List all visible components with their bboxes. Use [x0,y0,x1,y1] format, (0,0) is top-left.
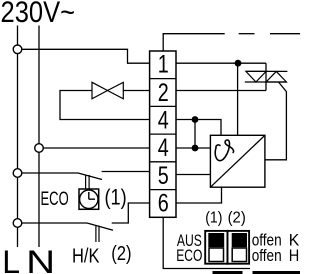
junction node terminal 4b [192,145,199,152]
node terminal circle on L for ECO switch [13,169,22,178]
triac V1 right triangle [266,71,286,82]
junction node on terminal 1 wire [235,60,242,67]
dashed device outline bottom [213,271,301,274]
label ECO DIP [176,246,202,265]
wire H/K switch fixed contact to terminal 6 [112,203,150,223]
wire terminal 2 to valve [123,90,149,92]
wire terminal 1 to triac MT2 [176,62,266,64]
time switch clock hands [89,192,95,199]
wire link terminal 4a to 4b [194,120,196,149]
wire L circle to ECO switch pivot [22,172,78,174]
label H/K [72,246,100,268]
label N [26,244,55,274]
wire terminal 2 to triac MT1 [176,90,266,92]
node terminal circle on N for terminal 4 feed [35,144,44,153]
label (2) DIP [228,210,246,227]
wire terminal 4b to thermostat box left [176,147,210,149]
terminal 1 label [158,51,169,79]
wire riser terminal 1 to dashed device outline [163,34,225,51]
label (1) DIP [205,210,222,227]
switch S1 linkage ticks [86,175,90,189]
svg-text:(2): (2) [111,242,131,265]
label (1) [105,185,127,210]
time switch clock box [79,189,99,209]
terminal 6 label [158,190,169,218]
svg-text:230V~: 230V~ [1,0,76,29]
terminal block outline [150,51,176,217]
label offen K [252,231,300,250]
label AUS [177,231,202,250]
DIP switch 2 actuator white [232,248,246,262]
DIP switch 1 actuator white [209,248,224,262]
wire terminal 5 to thermostat box left [176,174,210,176]
wire L line [17,26,19,248]
wire terminal 4a to thermostat box top [176,120,221,136]
label 230V~ [1,0,76,29]
DIP switch 2 housing [228,231,250,264]
svg-text:1: 1 [158,51,169,79]
DIP switch 2 actuator black [232,233,247,247]
DIP switch 1 actuator black [208,233,224,247]
triac V1 left triangle [246,71,266,82]
svg-text:5: 5 [158,162,169,190]
triac V1 bottom bar [245,81,287,83]
svg-text:(1): (1) [105,185,127,210]
thermostat box diagonal [210,135,265,187]
wire valve to terminal 4a [60,91,150,120]
svg-text:ECO: ECO [41,188,69,210]
wire from L circle to terminal 1 [22,49,150,63]
terminal 4b label [158,134,169,162]
thermostat theta symbol [215,140,233,161]
terminal 4a label [158,107,169,135]
svg-text:N: N [26,244,55,274]
wire N line [38,26,40,248]
terminal 5 label [158,162,169,190]
wire terminal 6 bottom to DIP block [163,217,250,268]
terminal 2 label [158,79,169,107]
valve M1 left triangle [92,82,108,99]
switch S2 linkage ticks [96,226,99,243]
svg-text:4: 4 [158,107,169,135]
wire L circle to H/K switch pivot [22,222,87,224]
terminal block separators [150,79,176,190]
svg-text:(1): (1) [205,210,222,227]
switch S2 H/K blade [87,223,113,230]
svg-text:4: 4 [158,134,169,162]
wire triac vertical MT2-MT1 connection [265,63,267,90]
DIP switch 1 housing [205,231,227,264]
valve M1 right triangle [108,82,124,99]
wire ECO switch fixed contact to terminal 5 [102,171,150,173]
node terminal circle on L for terminal 1 feed [13,45,22,54]
wire N circle to terminal 4b [44,147,150,149]
triac V1 top bar [246,70,288,72]
switch S1 ECO blade [78,173,102,180]
wire triac gate to thermostat box [265,82,287,160]
svg-text:6: 6 [158,190,169,218]
wire junction down to thermostat box top [237,63,239,135]
svg-text:offen: offen [252,246,282,265]
label (2) [111,242,131,265]
label offen H [252,246,300,265]
thermostat box U1 [210,135,265,187]
time switch clock face [80,190,98,208]
svg-text:2: 2 [158,79,169,107]
label L [2,244,20,274]
node terminal circle on L for H/K switch [13,219,22,228]
junction node terminal 4a [192,116,199,123]
svg-text:ECO: ECO [176,246,202,265]
svg-text:(2): (2) [228,210,246,227]
svg-text:L: L [2,244,20,274]
wire thermostat box bottom to terminal 6 [176,187,222,203]
svg-text:H/K: H/K [72,246,100,268]
svg-text:H: H [289,246,300,265]
dashed device outline top [239,33,300,35]
label ECO [41,188,69,210]
